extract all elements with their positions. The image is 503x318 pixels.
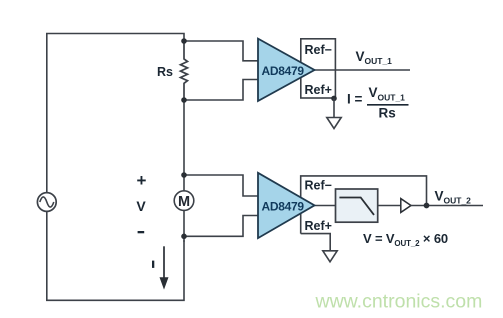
svg-text:Ref−: Ref− [305,179,332,193]
label minus [138,231,145,233]
node: bus top junction [181,38,187,44]
svg-text:Ref+: Ref+ [305,219,332,233]
wire buffer to VOUT_2 [411,205,484,207]
wire filter to buffer [378,205,401,207]
svg-text:Ref+: Ref+ [305,83,332,97]
wire bus resistor-bottom to motor-top [183,100,185,191]
svg-text:V: V [136,198,146,214]
svg-text:I =: I = [347,92,363,107]
label I [152,261,154,268]
svg-text:VOUT_1: VOUT_1 [369,85,406,103]
svg-text:AD8479: AD8479 [262,64,305,78]
node: U1 Ref+ ground junction [331,96,337,102]
ref box U1 [301,39,336,98]
low-pass filter F1 [336,189,378,222]
op-amp U1 AD8479 [258,39,315,101]
wire op-amp U1 +input [184,41,258,61]
buffer amp A1 [401,199,411,213]
wire op-amp U2 +input [184,175,258,196]
resistor R_S zigzag [181,41,188,100]
svg-text:V = VOUT_2 × 60: V = VOUT_2 × 60 [363,231,448,248]
node: motor top junction [181,172,187,178]
AC source V1 [37,193,56,212]
ground GND2 [323,251,337,262]
wire motor-bottom to bottom rail [183,210,185,241]
node: bus resistor bottom junction [181,97,187,103]
svg-text:VOUT_2: VOUT_2 [435,189,472,206]
wire top rail from source to bus [47,34,184,193]
node: motor bottom junction [181,234,187,240]
current arrow I [163,246,165,279]
wire source bottom to bottom rail [47,211,184,300]
node VOUT_2 [424,203,430,209]
wire U2 output to filter [315,205,336,207]
op-amp U2 AD8479 [258,173,315,238]
wire output VOUT_1 [315,69,411,71]
svg-text:+: + [137,171,147,190]
svg-text:AD8479: AD8479 [262,199,305,213]
motor M1 [174,191,194,211]
wire U2 Ref- to node VOUT_2 (feedback) [301,176,427,234]
svg-text:VOUT_1: VOUT_1 [356,49,393,66]
svg-text:Rs: Rs [157,65,173,79]
svg-text:Ref−: Ref− [305,43,332,57]
svg-text:www.cntronics.com: www.cntronics.com [315,290,483,312]
wire op-amp U2 -input [184,216,258,237]
wire U2 Ref+ to ground [301,234,331,251]
svg-text:M: M [178,194,190,210]
ground GND1 [333,98,335,117]
wire op-amp U1 -input [184,80,258,101]
svg-text:Rs: Rs [379,106,396,121]
